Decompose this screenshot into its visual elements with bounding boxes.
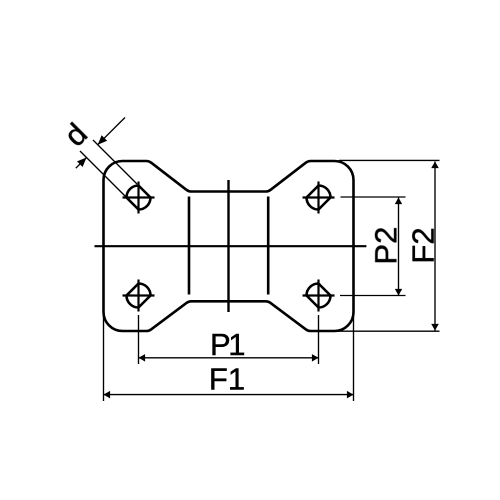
- svg-text:F1: F1: [209, 362, 245, 397]
- svg-text:P1: P1: [210, 327, 244, 362]
- svg-text:F2: F2: [406, 227, 441, 263]
- svg-text:P2: P2: [368, 227, 403, 265]
